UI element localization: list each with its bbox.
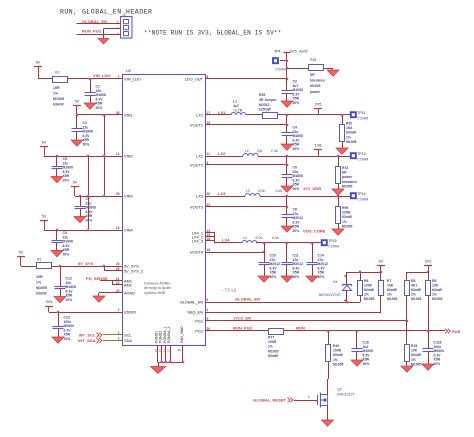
svg-text:31: 31 xyxy=(178,348,182,352)
svg-text:M1005: M1005 xyxy=(411,362,421,366)
svg-text:5V: 5V xyxy=(42,141,47,145)
svg-text:-TP16: -TP16 xyxy=(221,288,237,294)
svg-text:L2: L2 xyxy=(245,149,249,153)
svg-text:5V: 5V xyxy=(73,181,78,185)
svg-text:GLOBAL_EN: GLOBAL_EN xyxy=(235,297,260,302)
svg-text:VIN_LDO: VIN_LDO xyxy=(124,76,141,81)
svg-text:U2: U2 xyxy=(126,68,132,73)
svg-text:PGNDA_2: PGNDA_2 xyxy=(167,327,171,343)
svg-text:TP14: TP14 xyxy=(357,192,365,196)
svg-text:10%: 10% xyxy=(64,337,71,341)
svg-text:63mW: 63mW xyxy=(432,288,443,292)
svg-text:20%: 20% xyxy=(293,147,300,151)
svg-text:R59: R59 xyxy=(342,206,348,210)
svg-text:M1005: M1005 xyxy=(36,286,47,290)
svg-text:LX2: LX2 xyxy=(196,153,203,158)
svg-text:1: 1 xyxy=(118,308,120,312)
svg-text:BAT54XV2T5G: BAT54XV2T5G xyxy=(319,293,341,297)
svg-text:TP13: TP13 xyxy=(357,152,365,156)
svg-text:NP: NP xyxy=(342,171,347,175)
svg-text:INT_SDA: INT_SDA xyxy=(78,338,95,343)
svg-text:63mW: 63mW xyxy=(346,131,357,135)
svg-text:1VC2_EN: 1VC2_EN xyxy=(233,316,251,321)
svg-text:RUN_PG2: RUN_PG2 xyxy=(233,326,253,331)
svg-text:M1005: M1005 xyxy=(411,297,421,301)
svg-text:20%: 20% xyxy=(63,179,70,183)
svg-text:1%: 1% xyxy=(364,293,369,297)
svg-text:SEQ_EN: SEQ_EN xyxy=(187,309,203,314)
svg-text:20%: 20% xyxy=(318,275,325,279)
svg-text:RUN, GLOBAL_EN HEADER: RUN, GLOBAL_EN HEADER xyxy=(60,9,152,16)
svg-text:VOUT4: VOUT4 xyxy=(190,249,204,254)
svg-text:M1005: M1005 xyxy=(342,184,352,188)
svg-text:M1005: M1005 xyxy=(342,224,352,228)
svg-text:5V: 5V xyxy=(75,100,80,104)
svg-text:RUN: RUN xyxy=(452,330,460,334)
svg-text:2u2: 2u2 xyxy=(257,149,263,153)
svg-text:SDA: SDA xyxy=(124,338,132,343)
svg-text:125mW: 125mW xyxy=(259,108,272,112)
svg-text:GLOBAL_RESET: GLOBAL_RESET xyxy=(253,398,286,403)
svg-text:LX1: LX1 xyxy=(218,110,226,115)
svg-text:2V5_AUD: 2V5_AUD xyxy=(290,49,308,54)
svg-text:R6: R6 xyxy=(364,279,368,283)
svg-text:LX2: LX2 xyxy=(218,151,226,156)
svg-text:RUN_PG2: RUN_PG2 xyxy=(82,28,102,33)
svg-text:30: 30 xyxy=(207,192,211,196)
svg-text:10R: 10R xyxy=(36,275,43,279)
svg-text:4: 4 xyxy=(207,308,209,312)
svg-text:63mW: 63mW xyxy=(411,353,422,357)
svg-text:M1005: M1005 xyxy=(364,297,374,301)
svg-text:VOUT3: VOUT3 xyxy=(190,204,203,209)
svg-text:M1005: M1005 xyxy=(310,84,320,88)
svg-text:**NOTE RUN IS 3V3, GLOBAL_EN I: **NOTE RUN IS 3V3, GLOBAL_EN IS 5V** xyxy=(144,30,282,37)
svg-text:NP: NP xyxy=(310,73,315,77)
svg-text:63mW: 63mW xyxy=(333,353,344,357)
svg-text:4.4A: 4.4A xyxy=(275,189,283,193)
svg-text:~1.7A: ~1.7A xyxy=(233,109,243,113)
svg-text:R2: R2 xyxy=(55,71,59,75)
svg-text:20%: 20% xyxy=(83,143,90,147)
svg-text:M2012: M2012 xyxy=(259,103,269,107)
svg-text:tolerance: tolerance xyxy=(342,180,357,184)
svg-text:13: 13 xyxy=(116,226,120,230)
svg-text:M1005: M1005 xyxy=(53,97,64,101)
svg-text:63mW: 63mW xyxy=(53,103,64,107)
svg-text:L4: L4 xyxy=(243,236,247,240)
svg-text:10R: 10R xyxy=(53,86,60,90)
svg-text:63mW: 63mW xyxy=(268,354,279,358)
svg-text:VDD_CORE: VDD_CORE xyxy=(303,229,326,234)
svg-text:5V: 5V xyxy=(19,251,24,255)
svg-text:1%: 1% xyxy=(387,293,392,297)
svg-text:1%: 1% xyxy=(346,135,351,139)
svg-text:0R Jumper: 0R Jumper xyxy=(259,98,277,102)
svg-text:20%: 20% xyxy=(63,253,70,257)
svg-text:3V3: 3V3 xyxy=(46,300,53,304)
svg-text:20%: 20% xyxy=(293,187,300,191)
svg-text:LX3: LX3 xyxy=(218,191,226,196)
svg-text:system GND: system GND xyxy=(144,291,166,295)
svg-text:VOUT1: VOUT1 xyxy=(190,122,203,127)
svg-text:R7: R7 xyxy=(387,279,391,283)
svg-text:Q5: Q5 xyxy=(337,388,342,392)
svg-text:LX3: LX3 xyxy=(196,193,203,198)
svg-text:Connect AGND: Connect AGND xyxy=(144,282,170,286)
svg-text:10K: 10K xyxy=(432,284,439,288)
svg-text:20%: 20% xyxy=(293,101,300,105)
svg-text:6: 6 xyxy=(207,298,209,302)
svg-text:R5: R5 xyxy=(37,258,41,262)
svg-text:63mW: 63mW xyxy=(364,288,375,292)
svg-text:5V_SYS: 5V_SYS xyxy=(78,261,94,266)
svg-text:COMM: COMM xyxy=(357,117,368,121)
svg-text:20%: 20% xyxy=(270,275,277,279)
svg-text:63mW: 63mW xyxy=(411,288,422,292)
svg-text:LX4_3: LX4_3 xyxy=(192,238,203,243)
svg-text:3V3: 3V3 xyxy=(425,260,432,264)
svg-text:20%: 20% xyxy=(66,298,73,302)
svg-text:29: 29 xyxy=(116,192,120,196)
svg-text:20%: 20% xyxy=(96,106,103,110)
svg-text:M1005: M1005 xyxy=(268,349,278,353)
svg-text:24: 24 xyxy=(116,262,120,266)
svg-text:5V: 5V xyxy=(42,215,47,219)
svg-text:LX4: LX4 xyxy=(222,238,230,243)
svg-text:100R: 100R xyxy=(333,349,342,353)
svg-text:63mW: 63mW xyxy=(36,292,47,296)
svg-text:RUN: RUN xyxy=(296,326,305,331)
svg-text:1%: 1% xyxy=(36,281,42,285)
svg-text:VOUT2: VOUT2 xyxy=(190,162,203,167)
svg-text:R9: R9 xyxy=(432,279,436,283)
svg-text:PG1: PG1 xyxy=(195,318,203,323)
svg-text:VIN_LDO: VIN_LDO xyxy=(93,73,111,78)
svg-text:470n: 470n xyxy=(258,189,266,193)
svg-text:COMM: COMM xyxy=(328,245,339,249)
svg-text:M1005: M1005 xyxy=(387,297,397,301)
svg-text:9K1: 9K1 xyxy=(411,284,417,288)
svg-text:M1005: M1005 xyxy=(346,140,356,144)
svg-text:L1: L1 xyxy=(233,100,237,104)
svg-text:TP11: TP11 xyxy=(357,111,365,115)
svg-text:power: power xyxy=(342,175,353,179)
svg-text:1%: 1% xyxy=(268,345,273,349)
svg-text:M1005: M1005 xyxy=(432,297,442,301)
svg-text:4u7: 4u7 xyxy=(233,104,239,108)
svg-text:11: 11 xyxy=(207,152,211,156)
svg-text:D6: D6 xyxy=(333,280,337,284)
svg-text:PAD_GND: PAD_GND xyxy=(180,326,184,343)
svg-text:INT_SCL: INT_SCL xyxy=(79,332,96,337)
svg-text:1V1_DDR: 1V1_DDR xyxy=(303,186,321,191)
svg-text:VIN3: VIN3 xyxy=(124,193,133,198)
svg-text:63mW: 63mW xyxy=(342,215,353,219)
svg-text:LDO_OUT: LDO_OUT xyxy=(185,76,204,81)
svg-text:18: 18 xyxy=(207,248,211,252)
svg-text:AM2: AM2 xyxy=(124,282,132,287)
svg-text:20%: 20% xyxy=(293,229,300,233)
svg-text:1%: 1% xyxy=(432,293,437,297)
svg-text:225R: 225R xyxy=(342,211,351,215)
svg-text:VIN1: VIN1 xyxy=(124,112,133,117)
svg-text:COMM: COMM xyxy=(357,158,368,162)
svg-text:10%: 10% xyxy=(434,362,441,366)
svg-text:1%: 1% xyxy=(411,293,416,297)
svg-text:TP15: TP15 xyxy=(328,239,336,243)
svg-text:470n: 470n xyxy=(255,236,263,240)
svg-text:R77: R77 xyxy=(268,336,274,340)
svg-text:R8: R8 xyxy=(411,279,415,283)
svg-text:1%: 1% xyxy=(333,358,338,362)
svg-text:SCL: SCL xyxy=(124,332,132,337)
svg-text:20%: 20% xyxy=(363,362,370,366)
svg-text:20%: 20% xyxy=(293,275,300,279)
svg-text:20%: 20% xyxy=(86,219,93,223)
svg-text:1%: 1% xyxy=(53,92,59,96)
svg-text:L3: L3 xyxy=(246,189,250,193)
svg-text:2V5: 2V5 xyxy=(315,103,322,107)
svg-text:100R: 100R xyxy=(268,340,277,344)
svg-text:1V8: 1V8 xyxy=(315,144,322,148)
svg-text:R48: R48 xyxy=(310,58,316,62)
svg-text:100K: 100K xyxy=(364,284,373,288)
svg-text:1%: 1% xyxy=(342,220,347,224)
svg-text:R10: R10 xyxy=(333,344,339,348)
svg-text:COMM: COMM xyxy=(275,68,286,72)
svg-text:1%: 1% xyxy=(411,358,416,362)
svg-text:DMG1012T: DMG1012T xyxy=(337,392,355,396)
svg-text:R73: R73 xyxy=(342,166,348,170)
svg-text:5V_SYS_2: 5V_SYS_2 xyxy=(124,268,143,273)
svg-text:12: 12 xyxy=(116,152,120,156)
svg-text:VIN2: VIN2 xyxy=(124,153,133,158)
svg-text:1K8: 1K8 xyxy=(346,126,352,130)
svg-text:10K: 10K xyxy=(411,349,418,353)
svg-text:PG2: PG2 xyxy=(195,328,203,333)
svg-text:power: power xyxy=(310,90,321,94)
svg-text:GLOBAL_EN: GLOBAL_EN xyxy=(180,299,203,304)
svg-text:M1005: M1005 xyxy=(333,362,343,366)
svg-text:TP4: TP4 xyxy=(274,50,280,54)
svg-text:21: 21 xyxy=(167,348,171,352)
svg-text:2.3A: 2.3A xyxy=(271,149,279,153)
svg-text:10K: 10K xyxy=(387,284,394,288)
svg-text:directly to quiet: directly to quiet xyxy=(144,286,172,290)
svg-text:LX1: LX1 xyxy=(196,112,203,117)
svg-text:VDDIO: VDDIO xyxy=(124,309,136,314)
svg-text:3: 3 xyxy=(118,336,120,340)
svg-text:5V: 5V xyxy=(379,260,384,264)
svg-text:R15: R15 xyxy=(411,344,417,348)
svg-text:R39: R39 xyxy=(259,93,265,97)
svg-text:R52: R52 xyxy=(346,122,352,126)
svg-text:5.5A: 5.5A xyxy=(272,236,280,240)
svg-text:VIN4: VIN4 xyxy=(124,227,133,232)
svg-text:5V: 5V xyxy=(36,61,41,65)
svg-text:tolerance: tolerance xyxy=(310,79,325,83)
svg-text:63mW: 63mW xyxy=(387,288,398,292)
svg-text:AGND: AGND xyxy=(124,290,135,295)
svg-text:COMM: COMM xyxy=(357,198,368,202)
